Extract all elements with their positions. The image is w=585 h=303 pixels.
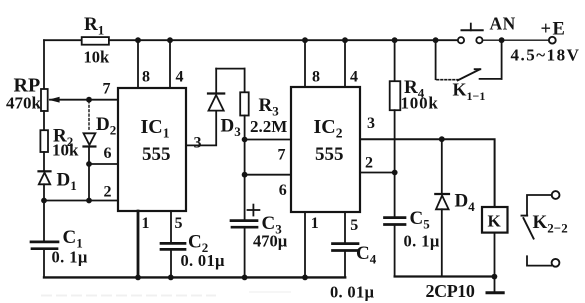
wire dotted branch to D2: [88, 101, 90, 131]
diode D4: [435, 194, 449, 209]
wire C4 to bottom rail: [344, 251, 346, 278]
svg-text:3: 3: [367, 115, 375, 132]
svg-text:555: 555: [142, 144, 171, 165]
svg-text:5: 5: [350, 217, 358, 234]
wire top supply rail right segment (AN to +E): [483, 39, 549, 41]
wire pin2 IC2 to R4/C5 node: [360, 172, 395, 174]
ground: [487, 277, 503, 293]
wire R3 down to C3: [244, 116, 246, 221]
svg-text:6: 6: [104, 145, 112, 162]
wire pin8 IC1 to rail: [137, 40, 139, 88]
svg-text:8: 8: [312, 69, 320, 86]
wire C1 to bottom rail: [43, 249, 45, 278]
svg-text:0. 01µ: 0. 01µ: [330, 283, 374, 302]
resistor R1: [82, 37, 109, 45]
svg-text:3: 3: [194, 134, 202, 151]
svg-text:2CP10: 2CP10: [426, 281, 475, 301]
resistor R2: [40, 130, 48, 152]
faint scan caption remnants: [42, 292, 290, 296]
wire top supply rail left segment: [44, 39, 458, 41]
wire pin1 IC2 to bottom rail: [304, 212, 306, 277]
wire bridge D3 to R3: [216, 68, 244, 70]
wire C2 to bottom rail: [170, 249, 172, 277]
svg-text:555: 555: [315, 144, 344, 165]
wire pin6 IC1: [89, 163, 118, 165]
wire left column (top rail to RP): [43, 40, 45, 89]
wire pin7 IC2: [245, 139, 291, 141]
wire pin7 IC1 to RP wiper: [50, 99, 118, 101]
svg-text:7: 7: [103, 81, 111, 98]
wire C5 to bottom wire: [394, 225, 396, 277]
wire C3 to bottom rail: [244, 227, 246, 277]
capacitor C2: [161, 243, 185, 249]
wire right bottom (C5 to ground node): [395, 275, 495, 277]
svg-text:8: 8: [142, 69, 150, 86]
svg-text:AN: AN: [490, 14, 516, 34]
op-amp/timer IC2 555 box: [291, 87, 360, 212]
svg-text:0. 01µ: 0. 01µ: [181, 251, 225, 270]
wire pin5 IC2 to C4: [344, 212, 346, 243]
switch K2-2: [522, 191, 560, 267]
svg-text:2: 2: [365, 155, 373, 172]
wire R2 to D1: [43, 152, 45, 171]
wire pin5 IC1 to C2: [170, 211, 172, 243]
pin number labels IC2: [278, 69, 376, 235]
svg-text:470µ: 470µ: [253, 232, 288, 251]
capacitor C3 polarity plus: [248, 205, 260, 216]
wire pin8 IC2 to rail: [304, 40, 306, 87]
wire branch to D4: [441, 139, 443, 194]
wire R4 top to rail: [394, 40, 396, 81]
wire R3 top stub: [244, 69, 246, 93]
wire pin2 IC1: [44, 200, 118, 202]
svg-text:4.5~18V: 4.5~18V: [511, 46, 581, 65]
wire pin3 IC2 to relay K: [360, 139, 495, 207]
capacitor C4: [333, 244, 359, 251]
svg-text:470k: 470k: [6, 94, 42, 113]
svg-text:100k: 100k: [401, 94, 439, 113]
terminal +E: [549, 37, 556, 44]
pin number labels IC1: [103, 69, 202, 233]
pushbutton AN: [458, 24, 483, 44]
wire pin1 IC1 to bottom rail: [137, 211, 140, 277]
svg-text:2.2M: 2.2M: [250, 117, 287, 136]
wire pin6 IC2: [245, 174, 291, 176]
capacitor C1: [31, 242, 58, 249]
resistor R4: [390, 81, 401, 110]
wire D2 to pin2 wire: [88, 147, 90, 201]
diode D3: [208, 94, 224, 111]
svg-text:0. 1µ: 0. 1µ: [404, 232, 440, 251]
resistor R3: [240, 92, 249, 115]
wire D4 to bottom wire: [441, 209, 443, 276]
svg-text:2: 2: [104, 184, 112, 201]
wire R4 to C5: [394, 110, 396, 217]
wire RP to R2: [43, 111, 45, 130]
svg-text:+E: +E: [541, 20, 567, 40]
op-amp/timer IC1 555 box: [118, 88, 186, 211]
svg-text:5: 5: [175, 215, 183, 232]
wire pin4 IC2 to rail: [344, 40, 346, 87]
svg-text:10k: 10k: [84, 48, 111, 67]
potentiometer RP: [41, 89, 60, 111]
diode D2: [84, 133, 96, 146]
wire pin4 IC1 to rail: [169, 40, 171, 88]
svg-text:1: 1: [142, 215, 150, 232]
svg-text:6: 6: [279, 182, 287, 199]
wire D3 top stub: [215, 69, 217, 94]
switch K1-1: [436, 40, 502, 80]
svg-text:4: 4: [350, 69, 358, 86]
svg-text:K: K: [488, 212, 502, 231]
svg-text:4: 4: [176, 69, 184, 86]
svg-text:7: 7: [278, 146, 286, 163]
wire D1 to C1 (through pin2 node): [43, 184, 45, 241]
wire bottom ground rail: [44, 276, 345, 278]
relay K box: [482, 207, 508, 233]
capacitor C3: [231, 221, 257, 228]
capacitor C5: [385, 218, 406, 225]
wire pin3 IC1 to D3: [186, 111, 216, 146]
diode D1: [39, 171, 51, 184]
wire K to ground node: [494, 233, 496, 277]
svg-text:0. 1µ: 0. 1µ: [52, 248, 88, 267]
svg-text:10k: 10k: [52, 141, 79, 160]
svg-text:1: 1: [311, 215, 319, 232]
